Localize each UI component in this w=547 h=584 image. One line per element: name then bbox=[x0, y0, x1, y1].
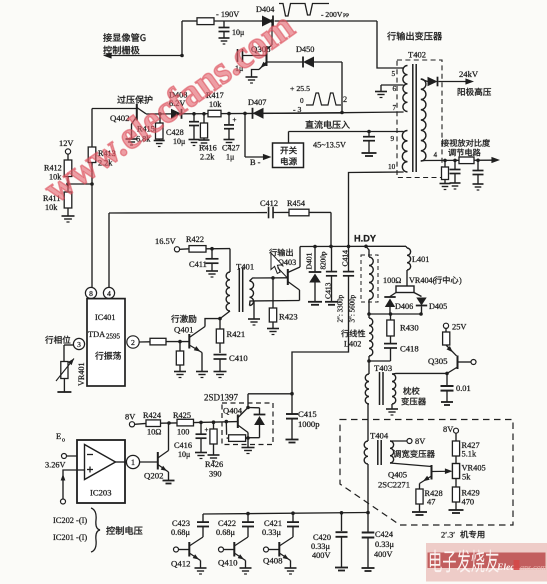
terminal bbox=[443, 323, 448, 328]
svg-text:D401: D401 bbox=[305, 252, 314, 269]
svg-text:C412: C412 bbox=[260, 199, 278, 208]
ground bbox=[62, 216, 75, 222]
ground bbox=[195, 568, 207, 574]
svg-text:R423: R423 bbox=[279, 312, 298, 322]
junction bbox=[227, 112, 231, 116]
wire main rail y114 (D408..D407) bbox=[146, 113, 342, 114]
junction bbox=[329, 245, 333, 249]
svg-text:IC401: IC401 bbox=[95, 313, 115, 322]
switching power supply box 开关电源 bbox=[273, 143, 304, 168]
svg-text:6: 6 bbox=[393, 85, 397, 93]
wire bottom rail y513 bbox=[203, 513, 368, 515]
label 调宽变压器 bbox=[393, 450, 434, 458]
ground bbox=[450, 183, 461, 189]
ground bbox=[248, 319, 260, 325]
T401 secondary bottom with ground bbox=[250, 301, 300, 306]
wire to T401 primary bbox=[229, 249, 231, 272]
resistor (unlabeled, -190V feed) bbox=[197, 18, 214, 25]
svg-text:R424: R424 bbox=[143, 411, 162, 420]
ground bbox=[163, 480, 175, 482]
junction bbox=[453, 159, 457, 163]
terminal bbox=[471, 360, 476, 365]
junction bbox=[367, 359, 371, 363]
junction bbox=[212, 420, 216, 424]
svg-text:C424: C424 bbox=[375, 530, 394, 539]
capacitor 1u (Q308 base) bbox=[237, 49, 239, 62]
junction bbox=[199, 421, 203, 425]
ground bbox=[242, 448, 255, 454]
svg-text:Q404: Q404 bbox=[223, 406, 243, 416]
junction bbox=[225, 420, 229, 424]
svg-text:Elec: Elec bbox=[496, 563, 515, 573]
junction bbox=[167, 421, 171, 425]
junction bbox=[347, 245, 351, 249]
T403 secondary top to Q305 bbox=[392, 372, 447, 375]
ground bbox=[214, 372, 227, 378]
junction bbox=[367, 312, 371, 316]
junction bbox=[340, 111, 344, 115]
svg-text:- 190V: - 190V bbox=[216, 10, 239, 19]
svg-text:ans.com: ans.com bbox=[520, 563, 547, 572]
HV rectifier diode bbox=[421, 79, 428, 82]
T402 pin6 ground tap bbox=[381, 84, 404, 86]
ground bbox=[362, 152, 377, 154]
junction bbox=[90, 182, 94, 186]
svg-text:470: 470 bbox=[462, 498, 475, 507]
svg-text:R416: R416 bbox=[199, 144, 217, 153]
ground bbox=[285, 568, 297, 574]
wire top rail y21 bbox=[182, 20, 197, 22]
svg-text:VR404(: VR404( bbox=[409, 276, 436, 285]
svg-text:8V: 8V bbox=[415, 437, 425, 446]
label DC voltage input 直流电压入 bbox=[305, 120, 349, 128]
wire B- to switching supply bbox=[244, 113, 246, 157]
T404 secondary top 8V terminal bbox=[390, 440, 407, 442]
arrow output to video amp bbox=[491, 157, 500, 163]
svg-text:5: 5 bbox=[392, 70, 396, 78]
svg-text:H.DY: H.DY bbox=[354, 234, 376, 244]
svg-text:IC201 -(I): IC201 -(I) bbox=[53, 533, 87, 542]
svg-text:Q412: Q412 bbox=[171, 559, 191, 569]
terminal bbox=[264, 547, 269, 552]
junction bbox=[158, 112, 162, 116]
svg-text:IC202 -(I): IC202 -(I) bbox=[53, 516, 87, 525]
ground bbox=[189, 140, 200, 146]
Q404 internal protection diode bbox=[248, 407, 260, 409]
junction bbox=[443, 159, 447, 163]
wire down to H.DY rail bbox=[330, 212, 332, 246]
Q404 emitter ground bbox=[247, 438, 249, 448]
ground bbox=[375, 92, 387, 98]
junction bbox=[419, 312, 423, 316]
ground bbox=[267, 329, 279, 335]
svg-text:L402: L402 bbox=[344, 340, 361, 349]
resistor (25V feed) bbox=[445, 328, 447, 332]
inductor L402 行线性 linearity coil bbox=[341, 330, 365, 338]
svg-text:2SD1397: 2SD1397 bbox=[204, 393, 239, 403]
junction bbox=[270, 19, 274, 23]
svg-text:0.33μ: 0.33μ bbox=[311, 542, 331, 551]
svg-text:10μ: 10μ bbox=[178, 450, 190, 459]
svg-text:Q405: Q405 bbox=[388, 470, 407, 480]
svg-text:400V: 400V bbox=[312, 551, 330, 560]
transistor Q401 行激励 driver bbox=[171, 315, 196, 323]
terminal bbox=[219, 547, 224, 552]
svg-text:0.68μ: 0.68μ bbox=[216, 528, 236, 537]
T402 core bbox=[412, 64, 414, 172]
svg-text:0: 0 bbox=[300, 97, 304, 105]
IC401 pin4 circle bbox=[103, 287, 114, 298]
wire vertical x92 (phase line to IC pin8) bbox=[91, 109, 93, 148]
junction bbox=[246, 406, 250, 410]
junction bbox=[364, 245, 368, 249]
svg-text:C415: C415 bbox=[298, 409, 317, 419]
terminal bbox=[61, 499, 66, 504]
junction bbox=[178, 340, 182, 344]
svg-text:B -: B - bbox=[250, 158, 261, 167]
terminal bbox=[407, 439, 412, 444]
junction bbox=[246, 512, 250, 516]
svg-text:10Ω: 10Ω bbox=[147, 428, 161, 437]
svg-text:T404: T404 bbox=[370, 431, 389, 441]
IC401 TDA2595 horizontal oscillator bbox=[87, 299, 125, 386]
svg-text:C411: C411 bbox=[189, 260, 207, 269]
label 阳极高压 bbox=[458, 88, 491, 96]
svg-text:C410: C410 bbox=[229, 353, 248, 363]
svg-text:24kV: 24kV bbox=[459, 69, 479, 79]
wire corner to T402 pin5 bbox=[377, 21, 401, 68]
svg-text:2′.3′: 2′.3′ bbox=[441, 531, 455, 540]
resistor (contrast net, horizontal) bbox=[459, 157, 474, 164]
svg-text:C416: C416 bbox=[174, 441, 192, 450]
svg-text:IC203: IC203 bbox=[90, 488, 111, 498]
svg-text:+: + bbox=[233, 116, 237, 124]
svg-text:+: + bbox=[205, 426, 209, 434]
deflection yoke H.DY coil dashed box bbox=[361, 255, 378, 302]
ground bbox=[362, 567, 375, 569]
svg-text:Q305: Q305 bbox=[428, 356, 448, 366]
T402 secondary winding bbox=[421, 79, 426, 161]
ground bbox=[224, 140, 235, 146]
ground bbox=[199, 140, 210, 146]
elecfans logo bottom right bbox=[426, 543, 547, 582]
terminal bbox=[129, 422, 134, 427]
svg-text:47: 47 bbox=[427, 498, 435, 507]
svg-text:8V: 8V bbox=[125, 413, 135, 422]
svg-text:R422: R422 bbox=[186, 235, 204, 244]
svg-text:12V: 12V bbox=[59, 139, 73, 148]
junction bbox=[210, 247, 214, 251]
svg-text:4: 4 bbox=[107, 289, 111, 298]
svg-text:7: 7 bbox=[393, 104, 397, 112]
svg-text:390: 390 bbox=[209, 470, 222, 479]
svg-text:0.33μ: 0.33μ bbox=[262, 528, 282, 537]
svg-text:E: E bbox=[56, 431, 61, 441]
svg-text:C422: C422 bbox=[218, 519, 236, 528]
capacitor (contrast net 1) bbox=[454, 160, 456, 169]
svg-text:TDA: TDA bbox=[88, 330, 105, 339]
svg-text:3: 3 bbox=[77, 340, 81, 349]
svg-text:Q202: Q202 bbox=[144, 471, 164, 481]
waveform -200Vpp pulses bbox=[279, 4, 329, 17]
ground bbox=[335, 567, 348, 569]
transformer T402 dashed box bbox=[397, 60, 442, 178]
svg-text:10μ: 10μ bbox=[173, 137, 185, 146]
op-amp IC203 bbox=[77, 440, 125, 503]
svg-text:0.68μ: 0.68μ bbox=[171, 528, 191, 537]
resistor (contrast net, vertical) bbox=[444, 160, 446, 167]
svg-text:2.2k: 2.2k bbox=[200, 153, 215, 162]
svg-text:8: 8 bbox=[89, 289, 93, 298]
svg-text:Q410: Q410 bbox=[218, 558, 238, 568]
junction bbox=[202, 112, 206, 116]
svg-text:3″: 5600p: 3″: 5600p bbox=[349, 294, 357, 322]
svg-text:2: 2 bbox=[343, 95, 347, 104]
svg-text:1000p: 1000p bbox=[298, 419, 319, 429]
transformer T404 width adjust bbox=[367, 404, 369, 441]
svg-text:C427: C427 bbox=[222, 144, 240, 153]
ground bbox=[206, 271, 218, 277]
wire 45~13.5V to T402 pin9 bbox=[288, 132, 290, 144]
junction bbox=[366, 511, 370, 515]
capacitor 10u at -190V bbox=[223, 21, 225, 27]
wire yoke return y314 bbox=[369, 313, 422, 315]
ground bbox=[195, 453, 207, 459]
junction bbox=[445, 372, 449, 376]
label 过压保护 overvoltage protection bbox=[117, 95, 152, 103]
ground bbox=[449, 509, 464, 511]
wire pin4 drop bbox=[108, 213, 110, 288]
T402 primary lower winding pins 9-10 bbox=[402, 131, 407, 173]
junction bbox=[389, 312, 393, 316]
cursor arrow artifact bbox=[271, 253, 282, 273]
ground bbox=[196, 372, 208, 378]
svg-text:D407: D407 bbox=[248, 98, 266, 107]
svg-text:): ) bbox=[459, 276, 462, 285]
ground bbox=[325, 301, 338, 303]
waveform +25.5/0/-3 pulses bbox=[306, 93, 341, 105]
ground bbox=[473, 184, 484, 190]
terminal bbox=[62, 454, 67, 459]
svg-text:16.5V: 16.5V bbox=[155, 237, 176, 246]
svg-text:10: 10 bbox=[388, 163, 396, 171]
svg-text:C423: C423 bbox=[172, 519, 190, 528]
wire 24kV anode HV bbox=[439, 81, 469, 83]
ground bbox=[240, 568, 252, 574]
resistor (Q401 base, horizontal) bbox=[139, 341, 150, 343]
T402 secondary bottom pin4 network bbox=[421, 160, 425, 163]
svg-text:1: 1 bbox=[131, 458, 135, 467]
ground bbox=[154, 141, 165, 147]
svg-text:- 200V: - 200V bbox=[321, 10, 343, 19]
svg-text:PP: PP bbox=[343, 13, 349, 19]
label 行相位 H-phase bbox=[45, 336, 70, 344]
ground bbox=[308, 301, 322, 303]
svg-text:1μ: 1μ bbox=[226, 153, 234, 162]
svg-text:C418: C418 bbox=[400, 344, 419, 354]
junction bbox=[243, 112, 247, 116]
ground bbox=[440, 184, 451, 190]
svg-text:Q408: Q408 bbox=[263, 556, 283, 566]
T404 primary bottom to rail bbox=[367, 464, 369, 513]
svg-text:L401: L401 bbox=[412, 255, 429, 264]
svg-text:0.33μ: 0.33μ bbox=[375, 540, 395, 549]
label 枕校变压器 bbox=[403, 387, 419, 395]
T402 primary upper winding pins 5-6-7 bbox=[403, 66, 408, 112]
ground bbox=[126, 139, 138, 145]
T402 pin7 lead bbox=[342, 111, 404, 114]
ground bbox=[219, 38, 230, 44]
svg-text:R454: R454 bbox=[287, 199, 306, 208]
T404 bottom to Q405 collector bbox=[390, 463, 432, 467]
T401 primary bottom to R421 junction bbox=[220, 311, 230, 319]
svg-text:R421: R421 bbox=[227, 329, 246, 339]
svg-text:D405: D405 bbox=[429, 302, 447, 311]
capacitor (contrast net 2) bbox=[477, 160, 479, 170]
svg-text:T402: T402 bbox=[408, 50, 426, 60]
svg-text:T403: T403 bbox=[374, 363, 392, 373]
svg-text:100: 100 bbox=[177, 428, 189, 437]
svg-text:R429: R429 bbox=[462, 489, 480, 498]
junction bbox=[340, 511, 344, 515]
label 接视放对比度调节电路 bbox=[441, 139, 490, 147]
T403 secondary bottom ground bbox=[391, 404, 393, 409]
T402 pin10 wire to C414 line bbox=[349, 172, 404, 246]
IC401 pin2 circle bbox=[127, 336, 139, 348]
wire rail y213 bbox=[109, 212, 267, 214]
junction bbox=[180, 54, 184, 58]
svg-text:D450: D450 bbox=[296, 45, 314, 54]
svg-text:100Ω: 100Ω bbox=[383, 276, 401, 285]
svg-text:0.01: 0.01 bbox=[456, 384, 471, 393]
svg-text:8V: 8V bbox=[443, 425, 453, 434]
svg-text:5.1k: 5.1k bbox=[462, 450, 477, 459]
T401 secondary top lead bbox=[250, 278, 288, 281]
svg-text:R430: R430 bbox=[400, 323, 419, 333]
wire pin3 to VR401 bbox=[64, 344, 73, 346]
wire D450 branch down to DC rail bbox=[341, 62, 343, 113]
ground bbox=[386, 409, 398, 415]
svg-text:25V: 25V bbox=[452, 323, 466, 332]
svg-text:VR401: VR401 bbox=[77, 362, 86, 386]
wire vertical x182 bbox=[181, 21, 183, 56]
terminal bbox=[174, 247, 179, 252]
svg-text:C420: C420 bbox=[313, 533, 331, 542]
transistor Q403 行输出 output bbox=[269, 249, 293, 257]
ground bbox=[57, 391, 71, 393]
junction bbox=[246, 436, 250, 440]
junction bbox=[476, 159, 480, 163]
junction bbox=[290, 392, 294, 396]
IC401 pin3 circle bbox=[73, 338, 84, 349]
svg-text:VR405: VR405 bbox=[462, 464, 486, 473]
svg-text:2SC2271: 2SC2271 bbox=[378, 480, 410, 490]
transformer T402 label 行输出变压器 bbox=[387, 32, 442, 41]
node CRT G control grid label 接显像管G控制栅极 bbox=[103, 33, 145, 42]
svg-text:400V: 400V bbox=[374, 550, 392, 559]
svg-text:8200p: 8200p bbox=[320, 251, 328, 269]
svg-text:Q401: Q401 bbox=[174, 325, 194, 335]
svg-text:2595: 2595 bbox=[106, 333, 121, 341]
potentiometer VR401 bbox=[61, 362, 68, 379]
wire to CRT grid with arrow bbox=[106, 55, 182, 57]
terminal bbox=[454, 428, 459, 433]
junction bbox=[291, 511, 295, 515]
junction bbox=[313, 245, 317, 249]
ground bbox=[441, 401, 453, 403]
dashed box 2/3-inch only section bbox=[340, 420, 513, 526]
ground bbox=[412, 511, 427, 513]
svg-text:D406: D406 bbox=[395, 302, 413, 311]
junction bbox=[367, 130, 371, 134]
junction bbox=[218, 317, 222, 321]
svg-text:o: o bbox=[62, 438, 65, 444]
svg-text:2: 2 bbox=[131, 338, 135, 347]
svg-text:45~13.5V: 45~13.5V bbox=[313, 141, 346, 150]
svg-text:C421: C421 bbox=[264, 519, 282, 528]
junction bbox=[271, 276, 275, 280]
ground bbox=[208, 455, 220, 461]
ground bbox=[286, 439, 299, 441]
svg-text:9: 9 bbox=[391, 135, 395, 143]
output node 1 circle bbox=[116, 461, 127, 463]
svg-text:Q403: Q403 bbox=[278, 258, 296, 267]
wire H.DY rail y246 bbox=[300, 245, 406, 247]
ground bbox=[246, 77, 258, 83]
ground bbox=[174, 372, 186, 378]
IC401 pin8 circle bbox=[85, 287, 96, 298]
svg-text:4: 4 bbox=[434, 151, 438, 159]
svg-text:+ 25.5: + 25.5 bbox=[290, 84, 310, 93]
terminal bbox=[174, 547, 179, 552]
terminal bbox=[65, 149, 70, 154]
junction bbox=[66, 182, 70, 186]
svg-text:2″: 3300p: 2″: 3300p bbox=[337, 294, 345, 322]
svg-text:3.26V: 3.26V bbox=[45, 461, 66, 470]
svg-text:5k: 5k bbox=[462, 473, 471, 482]
junction bbox=[192, 112, 196, 116]
